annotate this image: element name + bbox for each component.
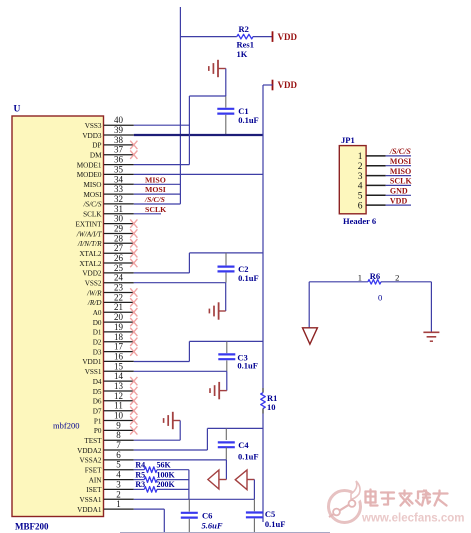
svg-text:VSS3: VSS3: [85, 122, 102, 130]
pin 11 D7: [93, 401, 138, 416]
svg-text:18: 18: [114, 332, 124, 342]
svg-text:A0: A0: [93, 309, 102, 317]
svg-text:25: 25: [114, 263, 124, 273]
svg-text:P1: P1: [94, 417, 102, 425]
resistor R2: [237, 24, 254, 59]
wire VSS2 down to ground: [225, 283, 227, 311]
svg-text:12: 12: [114, 391, 123, 401]
svg-text:/R/D: /R/D: [87, 299, 102, 307]
svg-text:31: 31: [114, 204, 123, 214]
wire VDD vertical x263 upper: [262, 85, 264, 388]
wire pin6 down to arrow: [225, 460, 227, 480]
pin 21 A0: [93, 302, 138, 317]
svg-text:MISO: MISO: [84, 181, 102, 189]
wire C2 top rail: [189, 252, 263, 254]
svg-text:37: 37: [114, 145, 124, 155]
svg-text:MODE1: MODE1: [77, 161, 102, 169]
svg-text:2: 2: [358, 162, 363, 172]
capacitor C3: [218, 341, 258, 370]
svg-text:28: 28: [114, 233, 124, 243]
svg-text:36: 36: [114, 155, 124, 165]
pin 23 WR: [86, 283, 137, 298]
net label MISO: [145, 175, 166, 184]
svg-text:VDD2: VDD2: [82, 270, 102, 278]
svg-text:D5: D5: [93, 388, 102, 396]
svg-text:/W/A/I/T: /W/A/I/T: [76, 230, 103, 238]
svg-text:R5: R5: [135, 470, 145, 479]
wire TEST pin8 to ground: [134, 421, 180, 441]
svg-text:/S/C/S: /S/C/S: [144, 195, 165, 204]
wire vertical x189 VSS net: [188, 96, 190, 165]
wire R6 right down: [430, 282, 432, 333]
svg-text:39: 39: [114, 125, 124, 135]
svg-text:XTAL2: XTAL2: [79, 250, 102, 258]
svg-text:D1: D1: [93, 329, 102, 337]
svg-text:21: 21: [114, 302, 123, 312]
ground (near C2): [209, 302, 225, 319]
ground (TEST pin): [164, 412, 181, 429]
svg-text:SCLK: SCLK: [83, 211, 102, 219]
pin 38 DP: [92, 135, 137, 150]
capacitor C6: [181, 499, 223, 533]
svg-text:/S/C/S: /S/C/S: [83, 201, 102, 209]
wire R2 right: [253, 36, 273, 38]
svg-text:34: 34: [114, 174, 124, 184]
pin 12 D6: [93, 391, 138, 406]
pin 9 P0: [94, 420, 137, 435]
svg-text:23: 23: [114, 283, 124, 293]
svg-text:XTAL2: XTAL2: [79, 260, 102, 268]
resistor R4: [134, 461, 189, 473]
connector JP1 designator: [341, 135, 355, 145]
svg-text:1: 1: [358, 273, 362, 283]
svg-text:VDD: VDD: [278, 32, 298, 42]
pin 14 D4: [93, 371, 138, 386]
svg-text:27: 27: [114, 243, 124, 253]
net label MOSI: [145, 185, 166, 194]
svg-text:VSS2: VSS2: [85, 280, 102, 288]
pin 34 MISO: [84, 174, 134, 189]
svg-text:2: 2: [116, 489, 121, 499]
svg-text:C5: C5: [265, 509, 275, 519]
svg-text:0.1uF: 0.1uF: [238, 273, 259, 283]
ground triangle (left of R6): [303, 328, 318, 344]
wire MOSI pin33: [134, 193, 181, 195]
wire R2 left: [180, 36, 236, 38]
svg-text:100K: 100K: [157, 470, 176, 479]
svg-text:MOSI: MOSI: [390, 157, 411, 166]
svg-text:38: 38: [114, 135, 124, 145]
svg-text:16: 16: [114, 351, 124, 361]
wire ground to C1: [225, 69, 227, 108]
svg-text:1K: 1K: [237, 49, 248, 59]
svg-text:VDDA1: VDDA1: [77, 506, 102, 514]
svg-text:VDDA2: VDDA2: [77, 447, 102, 455]
svg-text:/W/R: /W/R: [86, 289, 102, 297]
pin 30 EXTINT: [76, 214, 138, 229]
svg-text:0.1uF: 0.1uF: [265, 519, 286, 529]
resistor R5: [134, 470, 189, 482]
watermark Chinese text: [366, 490, 448, 506]
svg-text:TEST: TEST: [84, 437, 102, 445]
svg-text:VDD3: VDD3: [82, 132, 102, 140]
wire VSS1 down to ground: [226, 371, 228, 390]
svg-text:SCLK: SCLK: [145, 205, 166, 214]
svg-text:/I/N/T/R: /I/N/T/R: [77, 240, 102, 248]
svg-text:mbf200: mbf200: [53, 421, 79, 431]
svg-text:MBF200: MBF200: [15, 522, 49, 532]
svg-text:MOSI: MOSI: [145, 185, 166, 194]
svg-text:1: 1: [358, 152, 363, 162]
capacitor C1: [217, 106, 258, 125]
resistor R1: [261, 388, 278, 414]
svg-text:17: 17: [114, 342, 124, 352]
svg-text:/S/C/S: /S/C/S: [389, 147, 411, 156]
ground (near C3): [210, 382, 227, 399]
svg-text:0: 0: [378, 292, 382, 302]
svg-text:3: 3: [358, 172, 363, 182]
wire VSS3 pin40: [134, 124, 190, 126]
ground (near C1): [209, 60, 226, 77]
svg-text:35: 35: [114, 164, 124, 174]
svg-text:DM: DM: [90, 152, 102, 160]
svg-text:20: 20: [114, 312, 124, 322]
pin 24 VSS2: [85, 273, 134, 288]
IC U MBF200 body: [12, 116, 104, 517]
power arrow (left): [208, 470, 227, 489]
pin 1 VDDA1: [77, 499, 134, 514]
pin 5 FSET: [85, 460, 134, 475]
resistor R3: [134, 480, 189, 492]
svg-text:Header 6: Header 6: [343, 216, 376, 226]
pin 28 INTR: [77, 233, 137, 248]
capacitor C4: [218, 428, 259, 461]
svg-text:FSET: FSET: [85, 467, 102, 475]
power port VDD (top): [273, 31, 298, 42]
svg-text:14: 14: [114, 371, 124, 381]
pin 2 VSSA1: [80, 489, 134, 504]
svg-text:VDD: VDD: [390, 196, 408, 205]
svg-text:D2: D2: [93, 339, 102, 347]
pin 6 VSSA2: [80, 450, 134, 465]
wire SCLK pin31: [134, 213, 161, 215]
svg-text:AIN: AIN: [89, 476, 103, 484]
pin 37 DM: [90, 145, 137, 160]
net label SCLK: [145, 205, 166, 214]
svg-text:0.1uF: 0.1uF: [238, 115, 259, 125]
svg-text:15: 15: [114, 361, 124, 371]
wire VDD3 pin39 (thick): [134, 134, 263, 136]
JP1 pin 3 MISO: [358, 167, 411, 182]
wire VDD vertical x263 lower: [262, 414, 264, 523]
net label SCS: [144, 195, 165, 204]
wire R6 right: [381, 281, 431, 283]
svg-text:1: 1: [116, 499, 121, 509]
svg-text:SCLK: SCLK: [390, 177, 413, 186]
svg-text:VSSA2: VSSA2: [80, 457, 102, 465]
wire VSSA2 pin6: [134, 447, 227, 460]
wire MODE0 pin35 to VDD net: [134, 173, 263, 175]
pin 26 XTAL2: [79, 253, 137, 268]
pin 31 SCLK: [83, 204, 134, 219]
svg-text:VDD: VDD: [278, 80, 298, 90]
wire bottom edge sliver: [120, 532, 330, 533]
wire VDDA2 pin7: [134, 428, 208, 450]
capacitor C2: [218, 253, 259, 283]
svg-text:R2: R2: [239, 24, 249, 34]
svg-text:24: 24: [114, 273, 124, 283]
pin 32 SCS: [83, 194, 134, 209]
svg-text:P0: P0: [94, 427, 102, 435]
capacitor C5: [246, 499, 286, 533]
wire VSS2 pin24: [134, 273, 226, 283]
watermark url text: [361, 513, 464, 525]
power arrow (right): [235, 470, 254, 490]
wire C1 bottom to VDD3: [225, 115, 227, 135]
JP1 pin 1 SCS: [358, 147, 412, 162]
svg-text:MISO: MISO: [145, 175, 166, 184]
svg-text:U: U: [14, 105, 21, 115]
svg-text:D4: D4: [93, 378, 102, 386]
power port VDD (second): [263, 80, 297, 91]
pin 22 RD: [87, 292, 137, 307]
pin 17 D3: [93, 342, 138, 357]
svg-text:5: 5: [358, 192, 363, 202]
JP1 pin 5 GND: [358, 187, 411, 202]
wire VSSA1 pin2: [134, 498, 255, 500]
svg-text:33: 33: [114, 184, 124, 194]
JP1 pin 2 MOSI: [358, 157, 411, 172]
svg-text:10: 10: [267, 402, 276, 412]
wire C3 top rail: [189, 340, 263, 342]
svg-text:26: 26: [114, 253, 124, 263]
wire vertical net x180 (SCS/R2 net): [179, 7, 181, 204]
wire VDD1 pin16: [134, 341, 190, 361]
svg-text:MOSI: MOSI: [84, 191, 103, 199]
svg-text:ISET: ISET: [86, 486, 102, 494]
svg-text:VDD1: VDD1: [82, 358, 102, 366]
svg-text:19: 19: [114, 322, 124, 332]
svg-text:C6: C6: [202, 510, 212, 520]
JP1 pin 4 SCLK: [358, 177, 413, 192]
svg-text:D7: D7: [93, 408, 102, 416]
svg-text:D3: D3: [93, 348, 102, 356]
svg-text:29: 29: [114, 224, 124, 234]
svg-text:6: 6: [358, 201, 363, 211]
svg-text:0.1uF: 0.1uF: [237, 360, 258, 370]
svg-text:40: 40: [114, 115, 124, 125]
ground earth (right of R6): [423, 332, 439, 341]
pin 35 MODE0: [77, 164, 134, 179]
svg-text:8: 8: [116, 430, 121, 440]
wire SCS pin32: [134, 203, 181, 205]
IC U value MBF200: [15, 522, 49, 532]
svg-text:32: 32: [114, 194, 123, 204]
svg-text:4: 4: [116, 470, 121, 480]
svg-text:0.1uF: 0.1uF: [238, 452, 259, 462]
svg-text:D0: D0: [93, 319, 102, 327]
svg-text:JP1: JP1: [341, 135, 355, 145]
svg-text:9: 9: [116, 420, 121, 430]
svg-text:5.6uF: 5.6uF: [202, 521, 223, 531]
wire VDDA1 pin1: [134, 509, 165, 533]
svg-text:R3: R3: [135, 480, 145, 489]
JP1 pin 6 VDD: [358, 196, 411, 211]
svg-text:13: 13: [114, 381, 124, 391]
pin 40 VSS3: [85, 115, 134, 130]
pin 33 MOSI: [84, 184, 134, 199]
svg-text:C4: C4: [238, 440, 249, 450]
svg-text:4: 4: [358, 182, 363, 192]
svg-text:DP: DP: [92, 142, 101, 150]
wire horizontal y96 to ground/C1: [189, 95, 225, 97]
svg-text:Res1: Res1: [237, 40, 254, 50]
wire MISO pin34: [134, 183, 181, 185]
wire VDD2 pin25: [134, 253, 190, 273]
pin 39 VDD3: [82, 125, 133, 140]
pin 20 D0: [93, 312, 138, 327]
svg-text:5: 5: [116, 460, 121, 470]
pin 10 P1: [94, 411, 137, 426]
watermark logo circle: [329, 481, 365, 523]
svg-text:22: 22: [114, 292, 123, 302]
pin 13 D5: [93, 381, 138, 396]
pin 4 AIN: [89, 470, 134, 485]
IC U internal label mbf200: [53, 421, 79, 431]
wire resistor collector vertical: [188, 470, 190, 500]
wire arrow down to VSSA1 net: [253, 480, 255, 500]
svg-text:6: 6: [116, 450, 121, 460]
pin 7 VDDA2: [77, 440, 134, 455]
pin 8 TEST: [84, 430, 133, 445]
IC U designator: [14, 105, 21, 115]
svg-text:EXTINT: EXTINT: [76, 220, 103, 228]
svg-text:R6: R6: [370, 271, 380, 281]
svg-text:56K: 56K: [157, 461, 172, 470]
wire VSS1 pin15: [134, 360, 227, 371]
pin 16 VDD1: [82, 351, 133, 366]
svg-text:D6: D6: [93, 398, 102, 406]
wire R6 left: [309, 281, 368, 283]
resistor R6: [358, 271, 400, 302]
wire C4 top rail to VDD: [207, 427, 263, 429]
pin 18 D2: [93, 332, 138, 347]
svg-text:3: 3: [116, 479, 121, 489]
svg-text:30: 30: [114, 214, 124, 224]
pin 3 ISET: [86, 479, 133, 494]
svg-text:200K: 200K: [157, 480, 176, 489]
svg-text:11: 11: [114, 401, 123, 411]
svg-text:10: 10: [114, 411, 124, 421]
svg-text:MODE0: MODE0: [77, 171, 102, 179]
wire R6 left down: [308, 282, 310, 328]
svg-text:R4: R4: [135, 461, 145, 470]
svg-text:VSSA1: VSSA1: [80, 496, 102, 504]
pin 15 VSS1: [85, 361, 134, 376]
svg-text:GND: GND: [390, 187, 408, 196]
svg-text:7: 7: [116, 440, 121, 450]
svg-text:MISO: MISO: [390, 167, 411, 176]
pin 29 WAIT: [76, 224, 138, 239]
pin 36 MODE1: [77, 155, 134, 170]
svg-text:www.elecfans.com: www.elecfans.com: [361, 513, 464, 525]
wire MODE1 pin36: [134, 164, 190, 166]
pin 25 VDD2: [82, 263, 133, 278]
pin 27 XTAL2: [79, 243, 137, 258]
svg-text:VSS1: VSS1: [85, 368, 102, 376]
connector JP1 body: [339, 146, 366, 214]
connector JP1 value Header 6: [343, 216, 376, 226]
pin 19 D1: [93, 322, 138, 337]
